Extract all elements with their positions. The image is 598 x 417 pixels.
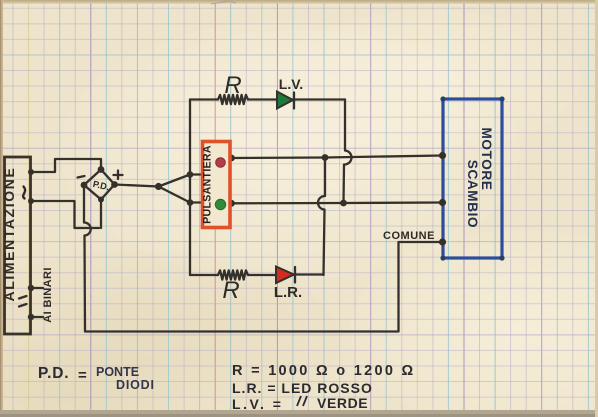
svg-text:P.D.: P.D.	[38, 365, 69, 382]
green-button output wire to motor	[232, 201, 443, 204]
svg-text:L.V.: L.V.	[279, 76, 303, 92]
node splitter	[155, 183, 162, 190]
svg-text:L.R.: L.R.	[274, 284, 302, 301]
svg-text:COMUNE: COMUNE	[383, 230, 435, 242]
node bridge bottom	[98, 197, 104, 203]
svg-text:ALIMENTAZIONE: ALIMENTAZIONE	[1, 167, 17, 302]
power supply box ALIMENTAZIONE	[5, 157, 31, 334]
svg-text:L.R. = LED ROSSO: L.R. = LED ROSSO	[232, 380, 373, 396]
node: terminal 2	[28, 198, 34, 204]
pulsantiera box	[203, 142, 231, 228]
node common lower	[187, 199, 194, 206]
red-button output wire to motor	[232, 156, 443, 159]
wire: bridge bottom vertex lead	[100, 200, 102, 228]
wire: bridge minus down, hop, along bottom, up to COMUNE	[84, 185, 442, 332]
node motor red	[439, 152, 446, 159]
svg-text:VERDE: VERDE	[317, 395, 368, 411]
wire stubs into pulsantiera	[190, 175, 204, 203]
label minus	[78, 176, 85, 178]
left vertical bus	[189, 100, 191, 276]
svg-text:=: =	[78, 367, 87, 384]
AC symbol ~	[23, 187, 25, 199]
diode bridge P.D.	[84, 170, 115, 200]
svg-text:R: R	[224, 72, 241, 99]
wire: bridge plus to splitter junction	[115, 185, 159, 187]
AI BINARI terminals	[31, 288, 44, 317]
bottom branch wire	[190, 273, 324, 276]
svg-text:PONTE: PONTE	[96, 365, 139, 379]
svg-text:SCAMBIO: SCAMBIO	[465, 160, 480, 228]
LED L.V. green	[277, 92, 293, 109]
LED L.R. red	[276, 267, 294, 284]
node motor comune	[439, 238, 446, 245]
svg-text:L.V. =: L.V. =	[232, 396, 283, 412]
wire: supply terminal 1 to bridge top	[31, 159, 102, 172]
node: join green wire	[340, 200, 347, 207]
splitter to button common wires	[159, 175, 191, 203]
DC symbol =	[19, 296, 27, 307]
node motor green	[439, 199, 446, 206]
svg-text:R: R	[222, 277, 239, 304]
svg-text:DIODI: DIODI	[116, 378, 155, 392]
svg-text:R = 1000 Ω o 1200 Ω: R = 1000 Ω o 1200 Ω	[232, 363, 415, 379]
node on pulsantiera right lower	[228, 200, 235, 207]
svg-text:PULSANTIERA: PULSANTIERA	[202, 145, 214, 224]
node common upper	[187, 171, 194, 178]
svg-text:AI BINARI: AI BINARI	[42, 267, 54, 323]
node on pulsantiera right upper	[228, 155, 235, 162]
wire: top branch corner down with hop over red wire	[344, 100, 352, 204]
green button	[215, 199, 225, 209]
motor corner blobs	[440, 96, 445, 101]
node: terminal 1	[28, 169, 34, 175]
wire: supply terminal 2 to bridge bottom	[31, 201, 100, 228]
node bridge top	[98, 166, 105, 173]
motore scambio box	[443, 99, 502, 258]
wire: junction down with hop over green wire to bottom branch	[318, 158, 325, 276]
node red wire junction	[322, 154, 329, 161]
label plus	[114, 171, 123, 180]
node bridge right	[111, 181, 118, 188]
resistor R bottom	[218, 270, 248, 279]
svg-text:MOTORE: MOTORE	[479, 127, 494, 190]
resistor R top	[218, 95, 248, 104]
scan edges	[0, 0, 598, 4]
top branch wire	[190, 98, 345, 100]
node bridge left	[81, 182, 88, 189]
red button	[216, 158, 226, 168]
